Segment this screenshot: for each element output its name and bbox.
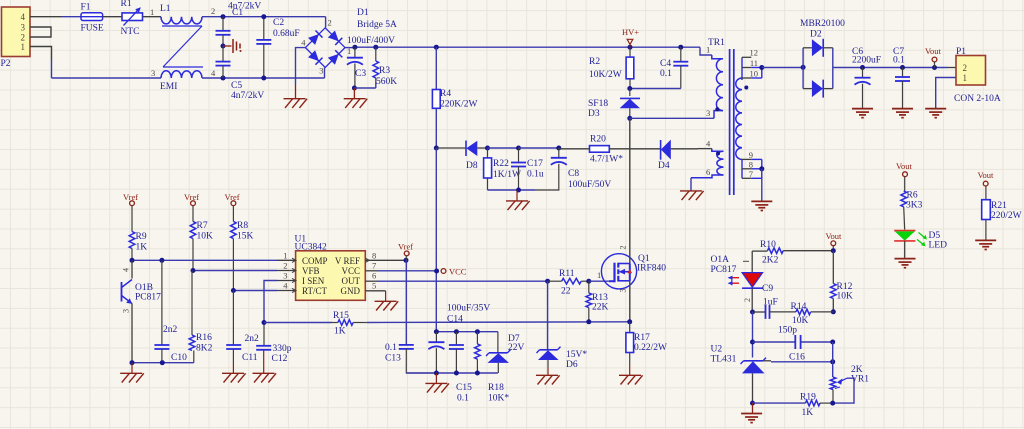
svg-text:UC3842: UC3842 — [295, 243, 327, 253]
node C2 top — [261, 14, 266, 19]
svg-text:PC817: PC817 — [135, 293, 161, 303]
node C17 top — [516, 146, 521, 151]
svg-text:D3: D3 — [588, 109, 600, 119]
svg-text:R3: R3 — [379, 66, 390, 76]
wire D6 column — [547, 281, 549, 350]
svg-text:I SEN: I SEN — [302, 276, 325, 286]
svg-text:Vref: Vref — [398, 242, 413, 252]
svg-text:220K/2W: 220K/2W — [440, 100, 478, 110]
wire O1B emitter bus — [132, 362, 194, 364]
wire F1 to R1 — [103, 16, 122, 18]
O1A light arrows — [728, 276, 740, 286]
svg-text:R6: R6 — [907, 191, 918, 201]
power port Vout (LED) — [896, 161, 913, 191]
power port Vout (R21) — [978, 170, 995, 200]
wire bottom AC rail — [52, 77, 162, 79]
capacitor C14 100uF/35V — [428, 304, 490, 374]
svg-text:C8: C8 — [568, 169, 579, 179]
svg-text:VR1: VR1 — [851, 375, 869, 385]
svg-text:3: 3 — [319, 66, 323, 76]
ground (C6) — [852, 109, 873, 118]
svg-text:VCC: VCC — [341, 266, 360, 276]
svg-text:LED: LED — [929, 241, 948, 251]
node REF — [830, 359, 835, 364]
ground (R21) — [975, 240, 996, 249]
svg-text:330p: 330p — [273, 344, 292, 354]
svg-text:4: 4 — [21, 12, 26, 22]
chassis earth (O1B) — [120, 363, 144, 383]
svg-text:2: 2 — [619, 246, 628, 250]
resistor R8 15K — [231, 206, 254, 291]
wire TR1 pin6 to earth — [690, 178, 692, 191]
wire GND pin5 — [365, 291, 385, 302]
HV rail — [355, 46, 700, 48]
wire ISEN row — [264, 322, 332, 324]
D5 light arrows — [917, 233, 927, 247]
svg-text:CON 2-10A: CON 2-10A — [954, 94, 1001, 104]
svg-text:2: 2 — [743, 298, 752, 302]
ground (TR1 pin8) — [751, 201, 772, 210]
svg-text:8K2: 8K2 — [196, 344, 213, 354]
mosfet Q1 IRF840 — [601, 246, 666, 293]
svg-text:3: 3 — [122, 309, 131, 313]
wire TR1 pin8 to ground — [761, 169, 763, 201]
svg-text:R9: R9 — [136, 232, 147, 242]
wire P1 pin1 to ground — [936, 78, 956, 109]
svg-text:VCC: VCC — [449, 267, 467, 277]
svg-text:FUSE: FUSE — [81, 24, 104, 34]
svg-text:1: 1 — [597, 270, 601, 280]
svg-text:C2: C2 — [273, 18, 284, 28]
svg-text:Vout: Vout — [896, 161, 913, 171]
TR1 core — [730, 49, 734, 195]
node TR1 pin8 — [759, 166, 764, 171]
node D2 input — [801, 65, 806, 70]
node C3 — [352, 45, 357, 50]
svg-text:O1A: O1A — [711, 255, 730, 265]
node R7/VFB — [191, 268, 196, 273]
svg-text:R15: R15 — [333, 311, 349, 321]
node C10 bottom — [160, 360, 165, 365]
svg-text:10: 10 — [750, 69, 759, 79]
svg-text:3K3: 3K3 — [906, 201, 923, 211]
connector P2 — [1, 7, 31, 69]
svg-text:0.1: 0.1 — [385, 343, 397, 353]
svg-text:C12: C12 — [272, 354, 288, 364]
wire D3 to TR1 pin3 — [630, 117, 714, 119]
capacitor C1 4n7/2kV — [216, 2, 262, 47]
node D8 row left — [434, 146, 439, 151]
node Vout — [932, 65, 937, 70]
node C1-C5 midpoint — [221, 44, 226, 49]
svg-text:100uF/50V: 100uF/50V — [568, 180, 611, 190]
resistor R17 0.22/2W — [626, 322, 667, 376]
wire D8 row — [436, 147, 466, 149]
ground (P1 pin1) — [925, 109, 946, 118]
node C10 top — [159, 258, 164, 263]
svg-text:R21: R21 — [991, 201, 1007, 211]
capacitor C5 4n7/2kV — [216, 46, 265, 101]
svg-text:C16: C16 — [789, 353, 805, 363]
node C5 bottom — [221, 76, 226, 81]
wire C4 bottom to R2 bottom — [630, 88, 681, 90]
svg-text:0.68uF: 0.68uF — [273, 29, 300, 39]
resistor R18 10K* — [475, 332, 510, 404]
svg-text:1: 1 — [963, 73, 968, 83]
capacitor C4 0.1 — [660, 47, 688, 88]
svg-text:8: 8 — [372, 251, 376, 261]
svg-text:MBR20100: MBR20100 — [800, 19, 845, 29]
svg-text:1K: 1K — [802, 408, 814, 418]
svg-text:220/2W: 220/2W — [991, 211, 1022, 221]
resistor R19 1K — [800, 393, 833, 419]
node R22 top — [485, 146, 490, 151]
node C6 — [860, 65, 865, 70]
wire D2 to P1 — [833, 67, 956, 69]
svg-text:P1: P1 — [956, 47, 966, 57]
svg-text:D1: D1 — [357, 8, 369, 18]
svg-text:150p: 150p — [778, 326, 797, 336]
svg-text:SF18: SF18 — [588, 99, 608, 109]
svg-text:R19: R19 — [800, 393, 816, 403]
choke core — [162, 26, 203, 67]
resistor R22 1K/1W — [484, 148, 521, 190]
capacitor C6 2200uF — [852, 47, 881, 108]
svg-text:R12: R12 — [837, 282, 853, 292]
node R19/VR1 — [830, 401, 835, 406]
node C17 bottom — [516, 188, 521, 193]
chassis earth (C14 bus) — [425, 373, 449, 393]
wire ISEN elbow — [264, 281, 296, 323]
svg-text:C9: C9 — [762, 284, 773, 294]
power port Vref (R7) — [184, 192, 199, 206]
transformer TR1 label — [708, 38, 725, 48]
wire P2 pin4 to fuse — [30, 16, 81, 18]
wire TL431 column — [752, 312, 754, 358]
node R4 — [434, 45, 439, 50]
ground (D5) — [895, 259, 916, 268]
IC U1 UC3842 — [283, 235, 376, 301]
chassis earth (C3) — [344, 88, 368, 108]
TR1 pins 9/8/7 — [742, 150, 762, 179]
wire L1 to bridge top — [202, 17, 326, 28]
svg-text:D4: D4 — [658, 161, 670, 171]
chassis earth (R17) — [619, 375, 643, 384]
node C4 — [678, 45, 683, 50]
node C14 bottom — [434, 371, 439, 376]
svg-text:L1: L1 — [160, 4, 171, 14]
resistor R3 560K — [373, 47, 397, 87]
svg-text:D6: D6 — [566, 360, 578, 370]
svg-text:2: 2 — [211, 6, 215, 16]
svg-text:RT/CT: RT/CT — [302, 286, 327, 296]
resistor R15 1K — [332, 311, 367, 337]
node C2 bottom — [261, 76, 266, 81]
svg-text:U2: U2 — [711, 345, 723, 355]
svg-text:TR1: TR1 — [708, 38, 725, 48]
svg-text:OUT: OUT — [342, 276, 361, 286]
svg-text:1: 1 — [150, 7, 154, 17]
node O1A cathode — [750, 310, 755, 315]
svg-text:Q1: Q1 — [638, 254, 650, 264]
svg-text:5: 5 — [372, 281, 376, 291]
svg-text:100uF/35V: 100uF/35V — [447, 304, 490, 314]
wire gate — [589, 270, 609, 281]
node C16 left — [750, 340, 755, 345]
svg-text:2K: 2K — [851, 365, 863, 375]
svg-text:10K/2W: 10K/2W — [589, 70, 622, 80]
svg-text:TL431: TL431 — [711, 355, 737, 365]
svg-text:R1: R1 — [121, 0, 132, 9]
svg-text:15K: 15K — [237, 232, 254, 242]
svg-text:Bridge 5A: Bridge 5A — [357, 20, 397, 30]
svg-text:0.22/2W: 0.22/2W — [634, 343, 667, 353]
node C8 top — [556, 146, 561, 151]
svg-text:4n7/2kV: 4n7/2kV — [231, 91, 264, 101]
TR1 aux winding — [691, 139, 724, 178]
svg-text:3: 3 — [21, 23, 26, 33]
svg-text:GND: GND — [341, 286, 361, 296]
bridge rectifier D1 Bridge 5A — [301, 8, 397, 76]
chassis earth (C11) — [222, 373, 246, 382]
resistor R9 1K — [129, 206, 147, 261]
chassis earth (TR1 pin6) — [680, 191, 704, 200]
resistor R14 10K — [791, 302, 834, 326]
svg-text:IRF840: IRF840 — [637, 264, 666, 274]
svg-text:V REF: V REF — [335, 256, 360, 266]
svg-text:2200uF: 2200uF — [852, 56, 881, 66]
ground (C7) — [892, 109, 913, 118]
TR1 secondary winding — [736, 78, 748, 159]
capacitor C12 330p — [256, 323, 292, 374]
resistor R20 4.7/1W* — [559, 135, 661, 165]
svg-text:10K: 10K — [792, 316, 809, 326]
node C15 bottom — [454, 371, 459, 376]
resistor R11 22 — [548, 269, 589, 297]
node TL431 anode — [750, 401, 755, 406]
connector P1 CON 2-10A — [954, 47, 1001, 104]
svg-text:R8: R8 — [237, 221, 248, 231]
svg-text:R4: R4 — [440, 89, 451, 99]
svg-text:Vout: Vout — [978, 170, 995, 180]
resistor R10 2K2 — [760, 240, 833, 266]
svg-text:O1B: O1B — [135, 283, 153, 293]
svg-text:R17: R17 — [634, 333, 650, 343]
thermistor R1 NTC — [121, 0, 143, 37]
node TR1 pin11 — [759, 65, 764, 70]
resistor R6 3K3 — [901, 191, 923, 230]
svg-text:C10: C10 — [171, 353, 187, 363]
wire VCC diode bottom bus — [488, 189, 536, 191]
svg-text:0.1: 0.1 — [893, 56, 905, 66]
diode D8 — [466, 141, 488, 172]
svg-text:HV+: HV+ — [622, 27, 639, 37]
svg-text:1: 1 — [21, 42, 26, 52]
shunt regulator U2 TL431 — [711, 345, 767, 404]
svg-text:EMI: EMI — [160, 82, 177, 92]
svg-text:0.1: 0.1 — [660, 69, 672, 79]
inductor EMI (common-mode choke bottom) — [151, 68, 216, 92]
chassis earth (C1/C5 midpoint) — [223, 39, 242, 53]
svg-text:10K*: 10K* — [488, 394, 509, 404]
svg-text:560K: 560K — [376, 77, 397, 87]
wire to C8 — [519, 147, 559, 149]
opto transistor O1B PC817 — [122, 260, 162, 362]
node R10/Vout — [831, 248, 836, 253]
wire Vref down to C13 — [405, 256, 407, 344]
svg-text:1K: 1K — [334, 327, 346, 337]
svg-text:F1: F1 — [81, 3, 91, 13]
svg-text:100uF/400V: 100uF/400V — [347, 36, 395, 46]
zener D6 15V* — [537, 347, 588, 376]
svg-text:10K: 10K — [197, 232, 214, 242]
wire VREF pin8 — [365, 259, 406, 261]
trimmer VR1 2K — [830, 365, 869, 403]
wire R1 to L1 — [143, 7, 162, 17]
capacitor C10 2n2 — [154, 260, 187, 363]
svg-text:12: 12 — [750, 48, 759, 58]
power port VCC — [441, 267, 467, 277]
svg-text:22K: 22K — [592, 303, 609, 313]
node C14 top — [434, 329, 439, 334]
ground (TL431) — [741, 403, 762, 423]
node D3 anode — [627, 116, 632, 121]
svg-text:C11: C11 — [242, 353, 258, 363]
fuse F1 — [81, 3, 104, 34]
svg-text:1: 1 — [706, 45, 710, 55]
capacitor C2 0.68uF — [256, 17, 299, 78]
node emitter/earth — [130, 360, 135, 365]
svg-text:VFB: VFB — [302, 266, 320, 276]
svg-text:C1: C1 — [232, 8, 243, 18]
diode D4 — [658, 140, 698, 171]
node HV+ — [628, 45, 633, 50]
power port Vref (R9) — [123, 192, 138, 206]
svg-text:2n2: 2n2 — [245, 334, 260, 344]
LED D5 — [894, 231, 947, 259]
wire VFB row — [193, 270, 296, 272]
svg-text:D5: D5 — [929, 231, 941, 241]
svg-text:C14: C14 — [447, 315, 463, 325]
wire source — [629, 281, 631, 322]
wire TL431 ref — [763, 361, 833, 362]
capacitor C15 0.1 — [449, 332, 472, 404]
svg-text:R7: R7 — [197, 221, 208, 231]
wire O1A anode to R10 — [752, 250, 767, 252]
svg-text:22: 22 — [561, 287, 571, 297]
svg-text:7: 7 — [749, 169, 753, 179]
capacitor C16 150p — [753, 326, 833, 363]
svg-text:Vout: Vout — [826, 231, 843, 241]
svg-text:R18: R18 — [488, 383, 504, 393]
svg-text:2: 2 — [283, 261, 287, 271]
svg-text:10K: 10K — [837, 292, 854, 302]
svg-text:3: 3 — [283, 271, 287, 281]
svg-text:NTC: NTC — [121, 27, 140, 37]
wire VCC pin7 — [365, 270, 436, 272]
svg-text:3: 3 — [619, 289, 628, 293]
svg-text:1K/1W: 1K/1W — [493, 170, 521, 180]
svg-text:R22: R22 — [493, 159, 509, 169]
VCC top bus — [436, 331, 498, 333]
wire COMP row — [132, 259, 296, 261]
capacitor C7 0.1 — [893, 47, 910, 108]
node source — [627, 319, 632, 324]
capacitor C13 0.1 — [385, 343, 436, 373]
wire anode row — [753, 402, 806, 404]
svg-text:R13: R13 — [592, 293, 608, 303]
svg-text:Vout: Vout — [925, 46, 942, 56]
power port Vref (R8) — [225, 192, 240, 206]
chassis earth (C12) — [253, 373, 277, 382]
svg-text:2: 2 — [21, 33, 26, 43]
diode D3 SF18 — [588, 89, 640, 120]
svg-text:1K: 1K — [136, 243, 148, 253]
node R18 bottom — [475, 371, 480, 376]
svg-text:4: 4 — [122, 268, 131, 272]
dual diode D2 MBR20100 — [800, 19, 845, 98]
node gate — [586, 279, 591, 284]
svg-text:0.1u: 0.1u — [527, 170, 544, 180]
capacitor C17 0.1u — [511, 148, 544, 190]
node VCC — [434, 269, 439, 274]
resistor R21 220/2W — [982, 200, 1022, 241]
node C1 top — [221, 14, 226, 19]
svg-text:D2: D2 — [810, 30, 822, 40]
wire rail to TR1 pin1 — [700, 47, 712, 55]
node R2/C4/D3 — [627, 86, 632, 91]
svg-text:C3: C3 — [355, 69, 366, 79]
resistor R16 8K2 — [189, 271, 212, 363]
node C3 bottom — [352, 86, 357, 91]
capacitor C9 1uF — [753, 284, 796, 319]
svg-text:3: 3 — [151, 68, 155, 78]
wire VCC column — [435, 148, 437, 332]
node R8/RTCT — [231, 288, 236, 293]
resistor R12 10K — [831, 282, 854, 312]
wire to C17 — [488, 147, 519, 149]
wire RTCT row — [233, 290, 295, 292]
HV+ power port — [622, 27, 639, 47]
svg-text:COMP: COMP — [302, 256, 328, 266]
node Vref pin8 — [404, 258, 409, 263]
resistor R7 10K — [190, 206, 213, 271]
wire drain — [629, 118, 631, 263]
node D6/gate — [545, 279, 550, 284]
VCC bottom bus — [406, 372, 498, 374]
svg-text:2K2: 2K2 — [762, 256, 779, 266]
svg-text:2n2: 2n2 — [163, 325, 178, 335]
capacitor C11 2n2 — [226, 291, 259, 374]
svg-text:C17: C17 — [527, 159, 543, 169]
chassis earth (C17 bus) — [506, 190, 530, 210]
svg-text:7: 7 — [372, 261, 376, 271]
power port Vout (output) — [925, 46, 942, 68]
power port Vref (pin8) — [398, 242, 413, 256]
resistor R13 22K — [586, 281, 609, 322]
svg-text:2: 2 — [963, 63, 968, 73]
wire R12 column top — [832, 251, 834, 284]
svg-text:6: 6 — [706, 167, 710, 177]
svg-text:15V*: 15V* — [566, 350, 587, 360]
chassis earth (U1 GND) — [375, 301, 399, 310]
capacitor C8 100uF/50V — [535, 148, 611, 190]
svg-text:0.1: 0.1 — [457, 394, 469, 404]
TR1 primary winding — [706, 45, 723, 119]
inductor L1 (common-mode choke top) — [160, 4, 215, 24]
TR1 primary phase dot — [715, 107, 719, 111]
chassis earth (D6) — [536, 375, 560, 384]
